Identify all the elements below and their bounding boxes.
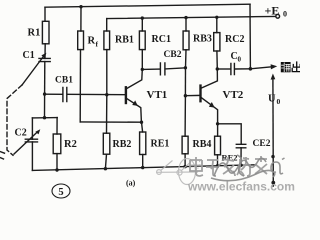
arrow of variable capacitor C2: [14, 132, 37, 154]
svg-text:R1: R1: [28, 28, 41, 39]
wire output arrow: [250, 67, 271, 69]
node VT2 collector: [216, 67, 219, 70]
node RB2 ground: [104, 167, 107, 170]
wire RE1 top lead: [142, 122, 143, 132]
power rail +E0: [107, 16, 276, 18]
wire CB1 to VT1 base: [67, 93, 126, 95]
wire R2 bottom lead: [56, 154, 58, 170]
wire VT2 base: [185, 94, 200, 96]
arrow of variable capacitor C1: [22, 56, 44, 85]
wire RE2 bottom lead: [217, 155, 219, 166]
node VT1 collector: [141, 68, 144, 71]
node VT1 base: [105, 93, 108, 96]
terminal +E0: [276, 14, 280, 18]
wire RB1 bottom lead: [106, 50, 108, 95]
wire CE2 bottom lead: [240, 148, 242, 165]
svg-text:0: 0: [283, 10, 287, 19]
node RC1 top: [141, 16, 144, 19]
wire RB3 bottom lead: [185, 50, 188, 68]
svg-text:U: U: [268, 94, 276, 105]
svg-text:C1: C1: [23, 50, 35, 61]
node CB2 right: [184, 66, 187, 69]
wire RB2 top lead: [106, 95, 108, 134]
svg-text:RB3: RB3: [193, 34, 212, 45]
node output: [249, 67, 253, 71]
wire RB2 bottom lead: [105, 154, 106, 169]
node RE2 ground: [216, 164, 219, 167]
node loop top junction: [43, 116, 46, 119]
svg-text:R: R: [88, 36, 96, 47]
node RB3 top: [184, 16, 187, 19]
wire node A down to C2/R2 loop: [44, 94, 46, 118]
dashed link continuation at left edge: [0, 152, 5, 160]
resistor RE1: [140, 132, 146, 155]
svg-text:www.elecfans.com: www.elecfans.com: [187, 180, 295, 194]
wire RE1 bottom lead: [142, 155, 144, 168]
node Rf tap on top rail: [79, 5, 82, 8]
wire RB1 top lead: [106, 19, 108, 31]
resistor R2: [53, 134, 61, 154]
capacitor CB2: [142, 68, 160, 70]
wire RE2 top lead: [217, 124, 219, 136]
svg-text:CE2: CE2: [253, 139, 271, 149]
resistor RB1: [104, 31, 110, 50]
figure number circle 5: [52, 184, 70, 198]
wire RC1 top lead: [141, 18, 143, 31]
svg-text:CB2: CB2: [164, 50, 182, 60]
wire Rf bottom lead down (crosses base line): [79, 50, 81, 122]
svg-text:0: 0: [238, 56, 242, 64]
svg-text:VT1: VT1: [147, 89, 168, 101]
svg-text:RB2: RB2: [113, 139, 132, 150]
resistor RC1: [139, 31, 145, 50]
wire top feedback rail: [45, 4, 250, 7]
wire RC2 bottom lead: [216, 51, 218, 69]
svg-text:5: 5: [58, 187, 63, 198]
label output chinese 输出: [281, 61, 301, 72]
node U0 lower: [271, 181, 275, 185]
svg-text:R2: R2: [64, 139, 77, 150]
watermark script overlay: [211, 155, 285, 181]
svg-text:RC2: RC2: [225, 34, 244, 45]
node RB4 ground: [183, 165, 186, 168]
node CE2 ground: [239, 164, 242, 167]
svg-text:CB1: CB1: [55, 76, 73, 86]
wire loop top: [32, 117, 57, 119]
wire CE2 branch top: [218, 124, 242, 144]
wire RB4 bottom lead: [184, 154, 186, 167]
svg-text:f: f: [96, 40, 99, 49]
svg-text:RB4: RB4: [193, 139, 212, 150]
wire C2 branch lower: [31, 142, 33, 171]
resistor RE2: [215, 136, 221, 155]
capacitor C0: [217, 68, 230, 70]
transistor VT2: [201, 69, 217, 88]
svg-text:RB1: RB1: [115, 35, 134, 46]
node RC2 top: [215, 16, 218, 19]
node VT2 emitter: [216, 122, 219, 125]
wire feedback vertical right to output node: [249, 4, 251, 69]
node VT1 emitter: [140, 121, 143, 124]
wire Rf top lead: [80, 7, 82, 31]
watermark text dianzifashaoyou: [190, 156, 267, 176]
svg-text:RE1: RE1: [151, 139, 170, 150]
ground bottom rail: [32, 165, 254, 171]
wire C2 branch upper: [31, 118, 33, 139]
svg-text:C2: C2: [15, 128, 27, 139]
svg-text:0: 0: [277, 97, 281, 106]
svg-text:+E: +E: [265, 4, 280, 18]
node RE1 ground: [141, 166, 144, 169]
wire RC1 bottom lead: [141, 50, 143, 70]
ganged dashed link C1-C2: [7, 85, 22, 155]
resistor RB2: [103, 133, 110, 154]
capacitor CB1: [45, 93, 63, 95]
resistor RB4: [182, 136, 188, 154]
transistor VT1: [127, 69, 143, 88]
watermark logo line-art: [156, 159, 200, 185]
svg-text:RC1: RC1: [152, 34, 171, 45]
wire U0 indicator line: [272, 78, 274, 187]
capacitor C2 (variable): [25, 139, 37, 142]
resistor RC2: [214, 33, 220, 51]
svg-text:VT2: VT2: [223, 89, 244, 101]
resistor R1: [42, 21, 49, 44]
wire R2 top lead: [56, 118, 58, 134]
wire CB2 node to VT2 base node: [184, 68, 186, 96]
wire feedback drop to R1: [44, 7, 46, 21]
wire Rf to VT1 emitter node: [80, 121, 141, 123]
resistor Rf: [78, 31, 84, 50]
node VT2 base: [184, 94, 187, 97]
wire R1 to C1: [44, 44, 46, 59]
wire RC2 top lead: [216, 17, 218, 32]
node R2 ground: [55, 168, 58, 171]
capacitor C1 (variable): [39, 58, 50, 61]
wire RB3 top lead: [185, 18, 187, 31]
wire RB4 top lead: [184, 96, 186, 137]
node A junction: [43, 92, 46, 95]
wire C1 to node A: [44, 62, 46, 95]
resistor RB3: [183, 31, 189, 50]
svg-text:(a): (a): [126, 179, 136, 188]
node U0 upper: [271, 155, 274, 158]
capacitor CE2: [236, 144, 246, 148]
